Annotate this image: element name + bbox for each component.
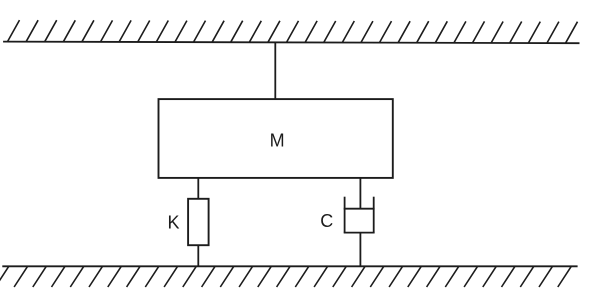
svg-text:M: M xyxy=(270,130,285,150)
svg-text:C: C xyxy=(320,211,333,231)
damper C lower rod xyxy=(359,233,361,267)
rod from ceiling to mass xyxy=(274,42,276,99)
ceiling hatching xyxy=(8,20,578,43)
damper C cylinder left wall xyxy=(344,197,346,233)
spring K body xyxy=(188,199,209,245)
spring K upper rod xyxy=(197,178,199,199)
damper C piston plate xyxy=(344,208,375,210)
mass M xyxy=(159,99,393,178)
damper C cylinder right wall xyxy=(373,197,375,233)
floor support line xyxy=(2,265,577,267)
spring K lower rod xyxy=(197,245,199,266)
svg-text:K: K xyxy=(167,212,179,232)
damper C cylinder bottom xyxy=(344,232,375,234)
damper C upper rod (piston rod) xyxy=(359,178,361,209)
ceiling support line xyxy=(3,42,579,44)
floor hatching xyxy=(0,266,571,287)
